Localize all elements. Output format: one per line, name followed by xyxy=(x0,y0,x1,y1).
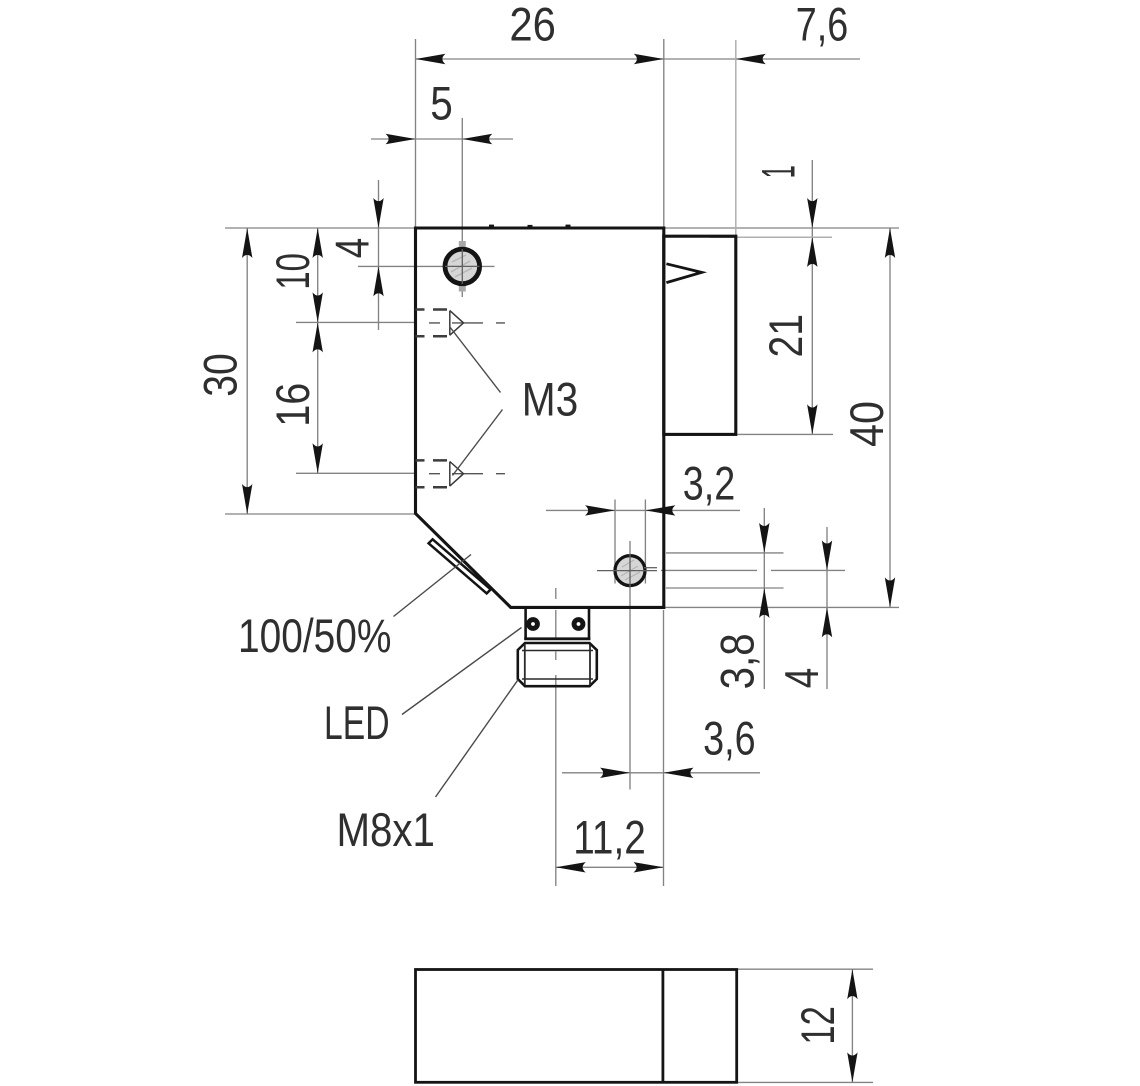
svg-text:12: 12 xyxy=(791,1006,844,1045)
svg-text:11,2: 11,2 xyxy=(573,811,646,864)
svg-text:26: 26 xyxy=(509,0,556,51)
svg-text:3,6: 3,6 xyxy=(703,712,756,765)
svg-text:30: 30 xyxy=(194,353,247,397)
svg-text:4: 4 xyxy=(775,668,828,689)
svg-text:5: 5 xyxy=(430,77,453,130)
svg-text:10: 10 xyxy=(266,253,319,290)
svg-text:7,6: 7,6 xyxy=(796,0,849,51)
svg-text:1: 1 xyxy=(752,165,805,178)
svg-text:3,8: 3,8 xyxy=(711,633,764,689)
svg-text:16: 16 xyxy=(266,383,319,427)
svg-text:40: 40 xyxy=(840,401,893,447)
svg-text:LED: LED xyxy=(324,696,390,749)
svg-text:M8x1: M8x1 xyxy=(336,803,435,856)
svg-text:100/50%: 100/50% xyxy=(238,609,392,662)
svg-text:4: 4 xyxy=(326,238,379,259)
svg-text:M3: M3 xyxy=(522,373,579,426)
svg-text:3,2: 3,2 xyxy=(683,456,736,509)
svg-text:21: 21 xyxy=(759,314,812,358)
